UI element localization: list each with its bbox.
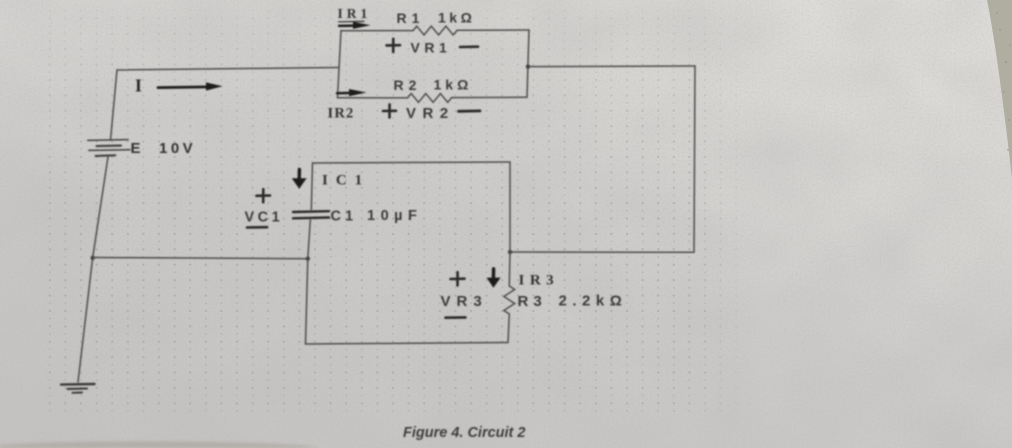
- svg-text:10V: 10V: [159, 140, 196, 157]
- wire: battery bottom to node: [93, 157, 108, 258]
- svg-text:1kΩ: 1kΩ: [434, 77, 473, 93]
- svg-text:VR1: VR1: [411, 40, 452, 56]
- label I: [135, 76, 142, 96]
- wire: parallel box right vertical: [527, 30, 529, 97]
- wire: battery top vertical: [111, 70, 118, 140]
- label R2 1kΩ: [394, 77, 473, 93]
- resistor R3: [504, 252, 515, 343]
- label + VR3 -: [441, 272, 488, 318]
- resistor R1: [341, 26, 529, 35]
- wire: middle box right vertical: [509, 162, 511, 252]
- svg-text:VC1: VC1: [245, 210, 284, 226]
- svg-text:R3: R3: [518, 293, 547, 310]
- caption: Figure 4. Circuit 2: [403, 425, 525, 441]
- wire: right outer vertical: [694, 66, 695, 252]
- label C1 10µF: [331, 208, 423, 224]
- label IR2 + VR2 -: [328, 104, 481, 122]
- svg-text:VR2: VR2: [406, 105, 455, 122]
- svg-text:Figure 4. Circuit 2: Figure 4. Circuit 2: [403, 425, 525, 441]
- wire: top horizontal from battery to parallel box: [117, 68, 338, 71]
- wire: right node to top-right corner: [528, 65, 695, 68]
- current arrow IC1: [292, 170, 307, 189]
- svg-text:C1: C1: [331, 209, 358, 225]
- capacitor C1: [293, 163, 329, 259]
- label + VR1 -: [387, 39, 479, 56]
- label + VC1 -: [245, 189, 284, 227]
- svg-text:IR3: IR3: [519, 273, 560, 289]
- svg-text:1kΩ: 1kΩ: [438, 9, 475, 25]
- node: capacitor bottom junction: [306, 257, 310, 261]
- svg-text:2.2kΩ: 2.2kΩ: [559, 293, 628, 310]
- current arrow IR1: [339, 22, 371, 29]
- ground: [61, 384, 95, 393]
- svg-text:IR2: IR2: [328, 106, 355, 122]
- current arrow IR3: [487, 269, 501, 288]
- wire: horizontal battery node to capacitor node: [93, 258, 308, 259]
- battery E 10V: [88, 140, 130, 156]
- current arrow I: [158, 82, 223, 90]
- svg-text:I: I: [135, 76, 142, 96]
- resistor R2: [338, 94, 528, 103]
- wire: node to ground: [78, 258, 93, 383]
- svg-text:VR3: VR3: [441, 293, 488, 310]
- label R1 1kΩ: [397, 9, 476, 25]
- node: R3 top junction: [508, 250, 512, 254]
- node: battery-capacitor bottom junction: [91, 256, 95, 260]
- svg-text:R1: R1: [397, 10, 425, 26]
- wire: parallel box left vertical: [338, 31, 342, 98]
- current arrow IR2: [337, 89, 367, 96]
- svg-text:R2: R2: [394, 77, 422, 93]
- label IC1: [322, 173, 370, 189]
- wire: middle box top edge: [313, 162, 511, 163]
- svg-text:E: E: [131, 140, 141, 157]
- label IR3: [519, 273, 560, 289]
- svg-text:IR1: IR1: [338, 6, 372, 21]
- wire: bottom of right loop to R3 node: [510, 251, 694, 253]
- label R3 2.2kΩ: [518, 293, 628, 310]
- wire: bottom horizontal to R3 bottom: [306, 343, 509, 345]
- node: parallel box right junction: [526, 64, 530, 68]
- svg-text:IC1: IC1: [322, 173, 370, 189]
- label E 10V: [131, 140, 197, 157]
- label IR1: [338, 6, 372, 22]
- wire: capacitor node down: [306, 259, 308, 344]
- svg-text:10µF: 10µF: [367, 208, 422, 224]
